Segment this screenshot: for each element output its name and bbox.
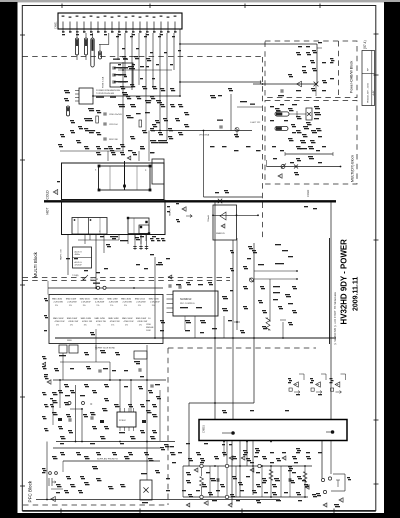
svg-text:PFC CONTROL: PFC CONTROL — [180, 303, 196, 305]
svg-text:TOP245YN HV-SW: TOP245YN HV-SW — [96, 93, 114, 95]
svg-text:SMD 1/4W: SMD 1/4W — [94, 318, 105, 320]
svg-text:SMD 1/4W: SMD 1/4W — [81, 318, 92, 320]
svg-text:470KJ 1W: 470KJ 1W — [82, 321, 93, 323]
svg-text:SMD 1/4W: SMD 1/4W — [53, 318, 64, 320]
svg-text:HV32LB_9DY - 42/32: HV32LB_9DY - 42/32 — [368, 82, 370, 103]
svg-text:JPS 185VA: JPS 185VA — [199, 134, 210, 137]
svg-text:HOT: HOT — [46, 208, 50, 215]
svg-text:SMBR K5: SMBR K5 — [216, 233, 226, 235]
svg-text:SMDGB: SMDGB — [146, 327, 154, 329]
svg-text:2.2KJ/1W: 2.2KJ/1W — [109, 301, 119, 303]
svg-text:1%: 1% — [55, 305, 58, 307]
svg-text:SUPPLIED FROM P.B: SUPPLIED FROM P.B — [97, 459, 118, 461]
svg-text:CN851: CN851 — [203, 425, 206, 433]
svg-text:1%: 1% — [138, 305, 141, 307]
svg-text:SMD 1206: SMD 1206 — [149, 299, 160, 301]
svg-text:HV32HD 9DY - POWER: HV32HD 9DY - POWER — [340, 239, 349, 325]
svg-text:SMPS 7.5V: SMPS 7.5V — [61, 249, 63, 260]
svg-text:C-HOT 122: C-HOT 122 — [250, 122, 261, 124]
svg-text:1%: 1% — [84, 325, 87, 327]
svg-text:1%: 1% — [139, 325, 142, 327]
svg-text:SMD 2012: SMD 2012 — [93, 299, 104, 301]
svg-text:470KJ 1W: 470KJ 1W — [124, 321, 135, 323]
svg-text:SMD 4631: SMD 4631 — [80, 299, 91, 301]
svg-text:MULTI Block: MULTI Block — [33, 251, 38, 277]
svg-text:750mH: 750mH — [208, 215, 210, 222]
svg-text:2.2KJ/1W: 2.2KJ/1W — [54, 301, 64, 303]
svg-text:2.2KJ/1W: 2.2KJ/1W — [136, 301, 146, 303]
svg-text:1%: 1% — [111, 325, 114, 327]
svg-text:2009.11.11: 2009.11.11 — [353, 277, 360, 311]
svg-text:1%: 1% — [152, 305, 155, 307]
svg-text:2.2KJ/1W: 2.2KJ/1W — [123, 301, 133, 303]
svg-text:R812 20K: R812 20K — [109, 139, 119, 141]
svg-text:JPS TOP: JPS TOP — [90, 279, 99, 281]
svg-text:470KJ 1W: 470KJ 1W — [68, 321, 79, 323]
svg-text:400Hz: 400Hz — [75, 254, 81, 256]
svg-text:470KJ 1W: 470KJ 1W — [110, 321, 121, 323]
svg-text:SMD 4632: SMD 4632 — [52, 299, 63, 301]
svg-text:PC802: PC802 — [119, 420, 126, 422]
svg-text:SMD 1/4W: SMD 1/4W — [122, 318, 133, 320]
svg-text:1%: 1% — [96, 305, 99, 307]
svg-text:SG6961SZ: SG6961SZ — [180, 299, 192, 301]
svg-text:1%: 1% — [110, 305, 113, 307]
svg-text:7.5V(B): 7.5V(B) — [72, 275, 79, 277]
svg-text:SMD 2012: SMD 2012 — [135, 299, 146, 301]
svg-text:1%: 1% — [83, 305, 86, 307]
svg-text:FUSE 3.15A: FUSE 3.15A — [102, 76, 105, 88]
svg-text:SMD 1/4W: SMD 1/4W — [108, 318, 119, 320]
svg-text:Power-CHB/W Block: Power-CHB/W Block — [350, 60, 354, 93]
svg-text:103K: 103K — [146, 330, 151, 332]
svg-text:C810 47u/50V: C810 47u/50V — [109, 114, 122, 116]
svg-text:MULTI(DY) Block: MULTI(DY) Block — [351, 155, 355, 182]
svg-text:1%: 1% — [97, 325, 100, 327]
svg-text:SMD 1/4W: SMD 1/4W — [67, 318, 78, 320]
svg-text:470KJ 1W: 470KJ 1W — [55, 321, 66, 323]
svg-text:SMD 1/4W: SMD 1/4W — [66, 299, 77, 301]
svg-text:D: D — [91, 403, 93, 406]
svg-text:+A,DY: +A,DY — [372, 90, 375, 96]
svg-text:(97.4): (97.4) — [363, 40, 367, 49]
svg-text:C811 104: C811 104 — [109, 124, 118, 126]
svg-text:1%: 1% — [125, 325, 128, 327]
svg-text:2.2KJ/1W: 2.2KJ/1W — [67, 301, 77, 303]
svg-text:47u/50V: 47u/50V — [75, 265, 83, 267]
svg-text:1%: 1% — [69, 305, 72, 307]
svg-text:SMD 1/4W: SMD 1/4W — [136, 318, 147, 320]
svg-text:COLD: COLD — [46, 190, 50, 200]
svg-text:COLD: COLD — [306, 190, 310, 197]
svg-text:SMD 4632: SMD 4632 — [121, 299, 132, 301]
svg-text:1%: 1% — [70, 325, 73, 327]
svg-text:SMD 1/4W: SMD 1/4W — [107, 299, 118, 301]
svg-text:Ⓢ SEMCO B/D Ⓢ LCD P·BA'T BY.: Ⓢ SEMCO B/D Ⓢ LCD P·BA'T BY. McGowans — [333, 291, 337, 345]
svg-text:2.2KJ/1W: 2.2KJ/1W — [81, 301, 91, 303]
svg-text:POWER INTEGRATIONS: POWER INTEGRATIONS — [96, 89, 120, 92]
svg-text:PFC Block: PFC Block — [28, 480, 33, 502]
svg-text:2.2KJ/1W: 2.2KJ/1W — [95, 301, 105, 303]
svg-text:SUPER GLUE BOND: SUPER GLUE BOND — [95, 348, 115, 350]
svg-text:CN801: CN801 — [55, 21, 58, 29]
svg-text:470KJ 1W: 470KJ 1W — [96, 321, 107, 323]
svg-text:1%: 1% — [124, 305, 127, 307]
svg-text:1%: 1% — [56, 325, 59, 327]
svg-text:470KJ 1W: 470KJ 1W — [137, 321, 148, 323]
